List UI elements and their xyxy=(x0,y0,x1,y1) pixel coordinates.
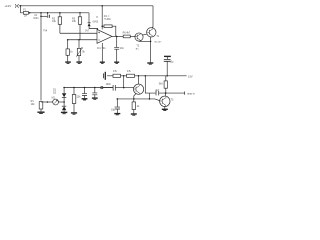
wire opamp output xyxy=(112,35,123,37)
node vu-c xyxy=(94,87,96,89)
svg-text:100n: 100n xyxy=(33,17,39,20)
wire bus to rail xyxy=(21,6,24,13)
node minus-a xyxy=(67,39,69,41)
wire to T5 base xyxy=(150,93,160,101)
ground gnd-T2 xyxy=(147,63,153,64)
svg-text:100n: 100n xyxy=(106,83,112,86)
node rail-a xyxy=(29,12,31,14)
resistor R11 xyxy=(72,88,76,113)
wire T2 emitter down xyxy=(150,37,152,63)
ground gnd-R1 xyxy=(37,112,44,113)
capacitor C11 xyxy=(92,88,97,98)
resistor R5 pull-up xyxy=(102,25,116,37)
wire input xyxy=(103,87,113,89)
connector J1 xyxy=(15,4,18,7)
node vplus-R5 xyxy=(101,25,103,27)
ground gnd-R4 xyxy=(65,62,71,63)
svg-text:3V7: 3V7 xyxy=(85,30,90,33)
svg-text:10n: 10n xyxy=(120,47,125,50)
wire T1 collector link xyxy=(142,34,147,35)
node bias-base xyxy=(123,87,125,89)
transistor T5 xyxy=(160,96,170,106)
node rail-d xyxy=(59,12,61,14)
node rail-R7R8 xyxy=(123,75,125,77)
transistor T3 xyxy=(134,84,144,94)
wire meter to diodes xyxy=(59,101,65,103)
meter M1 xyxy=(53,99,59,105)
wire bias riser xyxy=(123,76,125,88)
svg-text:10µ: 10µ xyxy=(169,60,174,63)
resistor R6 xyxy=(123,35,135,38)
capacitor C10 xyxy=(82,88,87,99)
ground gnd-rail sideways xyxy=(104,72,106,80)
svg-text:amp in: amp in xyxy=(187,93,195,96)
wire long vertical left xyxy=(40,13,42,101)
capacitor C8 xyxy=(156,91,185,96)
ground gnd-C9 xyxy=(114,114,120,115)
ground gnd-P1 xyxy=(76,62,82,63)
node rail-e xyxy=(79,12,81,14)
zener D1 xyxy=(88,13,98,33)
node rail-drop xyxy=(145,75,147,77)
resistor R2 xyxy=(58,13,61,33)
wire mid rail 15V xyxy=(107,75,187,77)
ground gnd-C10 xyxy=(82,99,88,100)
node diode-mid xyxy=(63,101,65,103)
svg-text:IC1 =: IC1 = xyxy=(104,16,110,18)
ground gnd-C5 xyxy=(114,62,119,63)
svg-text:TL081: TL081 xyxy=(104,19,111,21)
resistor R10 xyxy=(132,99,135,114)
wire opamp vminus to ground xyxy=(101,43,103,62)
wire T3 emitter xyxy=(134,93,136,99)
ground gnd-IC1 xyxy=(100,62,105,63)
node rail-T3col xyxy=(138,75,140,77)
ground gnd-C7 top xyxy=(164,56,171,59)
wire opamp minus input xyxy=(68,39,97,41)
resistor R7 xyxy=(113,74,121,77)
node minus-b xyxy=(78,39,80,41)
resistor R9 xyxy=(164,76,167,93)
svg-text:IC1 741: IC1 741 xyxy=(97,47,106,50)
wire opamp plus input xyxy=(60,32,97,34)
svg-text:+12V: +12V xyxy=(4,4,11,8)
wire rail drop to out xyxy=(145,76,155,93)
fuse F1 xyxy=(23,9,28,18)
capacitor C7 xyxy=(164,59,171,75)
wire T5 emitter xyxy=(164,107,166,109)
resistor R8 xyxy=(127,74,135,77)
node C1-vert xyxy=(40,15,42,17)
svg-text:7V4: 7V4 xyxy=(43,30,48,33)
svg-text:5k6: 5k6 xyxy=(159,82,164,85)
wire emitter row xyxy=(117,98,155,100)
capacitor C9 xyxy=(115,99,120,113)
ground gnd-R10 xyxy=(131,114,137,115)
op-amp IC1 xyxy=(97,29,112,43)
node rail-C7 xyxy=(166,75,168,77)
node output xyxy=(116,36,118,38)
svg-text:R6 4k7: R6 4k7 xyxy=(123,32,131,35)
wire meter row xyxy=(41,101,53,103)
ground gnd-R11 xyxy=(71,113,77,114)
capacitor C6 xyxy=(113,85,134,91)
node vu-corner xyxy=(63,87,65,89)
resistor R3 xyxy=(78,13,81,40)
svg-text:BC107: BC107 xyxy=(155,42,162,44)
wire vu row xyxy=(64,87,113,89)
node plus-a xyxy=(97,32,99,34)
diode D3 xyxy=(62,102,66,112)
svg-text:15V: 15V xyxy=(188,74,193,78)
wire T1 emitter xyxy=(139,40,151,42)
node em-res xyxy=(133,98,135,100)
capacitor C5 xyxy=(114,36,119,61)
transistor T2 xyxy=(147,28,156,37)
trimpot P1 xyxy=(76,40,82,62)
resistor R4 xyxy=(66,40,69,62)
ground gnd-C11 xyxy=(92,98,98,99)
node out-T5col xyxy=(165,92,167,94)
wire rail xyxy=(28,12,89,14)
svg-text:2A: 2A xyxy=(24,14,27,17)
node meter-left xyxy=(47,101,49,103)
transistor T1 xyxy=(135,33,143,41)
wire diode top xyxy=(63,88,65,94)
wire T5 collector xyxy=(165,93,167,96)
resistor R1 meter xyxy=(39,102,43,112)
connector input jack xyxy=(101,86,103,88)
node bus-left xyxy=(20,5,22,7)
node emitters xyxy=(150,41,152,43)
wire T3 collector xyxy=(138,76,140,84)
ground gnd-T5 xyxy=(162,109,168,110)
node bus-opamp xyxy=(101,5,103,7)
svg-text:0V63: 0V63 xyxy=(93,21,99,24)
wire opamp vplus xyxy=(101,6,103,30)
node em-base xyxy=(149,98,151,100)
node rail-b xyxy=(40,12,42,14)
wire bus corner to T2 xyxy=(152,6,153,29)
node vu-a xyxy=(73,87,75,89)
capacitor C1 xyxy=(41,13,50,18)
connector output tick xyxy=(184,91,186,94)
node em-cap xyxy=(117,98,119,100)
diode D2 xyxy=(62,93,66,101)
ground gnd-D3 xyxy=(61,112,67,113)
node rail-c xyxy=(47,12,49,14)
wire top bus xyxy=(19,5,153,7)
svg-text:BC: BC xyxy=(136,48,139,50)
node vu-b xyxy=(84,87,86,89)
